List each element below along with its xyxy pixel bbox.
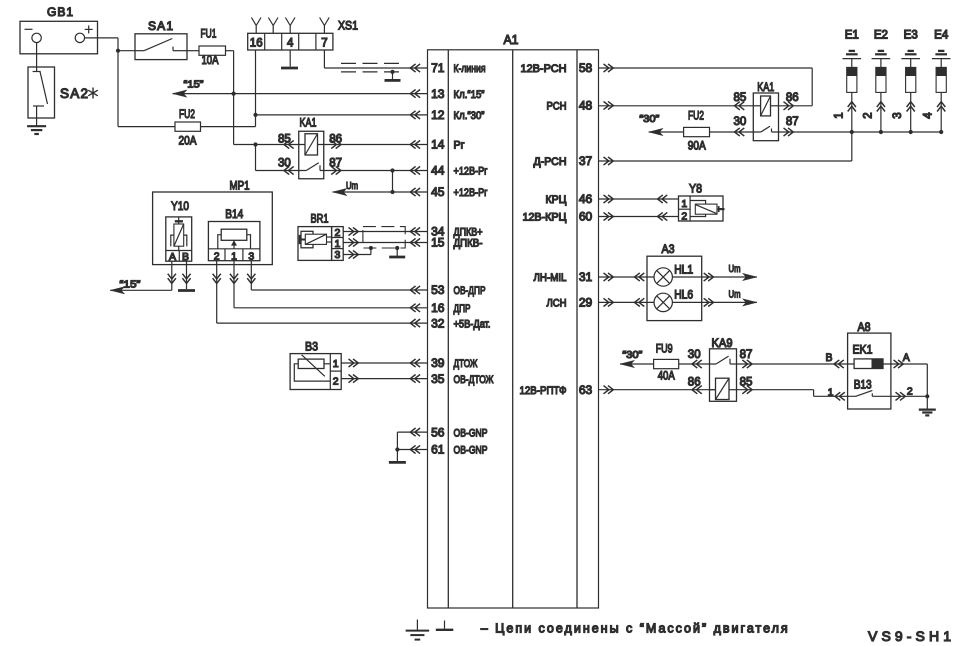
svg-text:71: 71 (431, 61, 445, 75)
switch B13 (828, 377, 913, 398)
A1 pin 56 ОВ-GNP (410, 425, 487, 439)
wire glow bus to A1 pin 37 (599, 132, 852, 161)
shield DPKV pair (363, 227, 405, 248)
junction glow bus E4 (939, 130, 943, 134)
svg-text:Y10: Y10 (171, 199, 189, 213)
wire A1 pin 48 to KA1 right 85 (599, 105, 754, 107)
svg-text:Y8: Y8 (689, 181, 702, 195)
block A3 (647, 242, 702, 321)
sensor BR1 (298, 211, 343, 261)
svg-text:35: 35 (431, 372, 445, 386)
wire shield to ground (396, 248, 398, 256)
svg-text:FU2: FU2 (179, 107, 195, 121)
svg-text:SA2: SA2 (60, 86, 88, 101)
ground MP1-B massa (178, 289, 195, 292)
wire 85 node down to 30 (255, 145, 257, 171)
svg-text:10A: 10A (202, 53, 219, 67)
junction pin44 to Um tap (390, 168, 394, 172)
junction Kl30 node (253, 113, 257, 117)
svg-text:Um: Um (729, 289, 741, 300)
wire B3-2 to A1 pin 35 (341, 378, 427, 380)
svg-text:“15”: “15” (184, 79, 205, 91)
ground node A earth (919, 409, 936, 411)
svg-text:31: 31 (579, 270, 593, 284)
svg-text:2: 2 (862, 112, 874, 118)
svg-text:2: 2 (681, 210, 687, 222)
svg-text:BR1: BR1 (311, 211, 329, 225)
lamp HL1 (654, 264, 693, 286)
svg-text:ЛСН: ЛСН (547, 298, 567, 310)
wire KA1 right 87 to glow plug bus (772, 131, 942, 133)
svg-text:А: А (903, 352, 911, 364)
connector pin B (182, 274, 190, 284)
switch SA2 (28, 67, 98, 118)
node "30" feed via FU2 90A (639, 113, 760, 136)
A1 pin 12 Кл.&#8220;30&#8221; (410, 108, 484, 122)
wire MP1-1 to A1 pin 16 (234, 261, 428, 308)
svg-text:B14: B14 (225, 207, 243, 221)
wire Kl30 to A1 pin 12 (256, 114, 428, 116)
svg-text:30: 30 (688, 349, 701, 361)
wire SA2 to ground (36, 106, 38, 126)
connector pin 2 (213, 274, 221, 284)
svg-text:Д-РСН: Д-РСН (534, 156, 567, 168)
svg-text:ОВ-ДПР: ОВ-ДПР (454, 285, 486, 297)
A1 pin 48 РСН (547, 99, 614, 113)
wire BR1-1 to A1 pin 15 (343, 242, 427, 244)
connector pins KA9 (692, 360, 752, 394)
svg-text:1: 1 (681, 198, 687, 210)
ECU A1 (428, 32, 599, 608)
A1 pin 60 12В-КРЦ (523, 210, 614, 224)
wire GB1 minus to SA2 (36, 43, 38, 72)
valve Y8 (679, 181, 725, 222)
wire MP1-3 to A1 pin 53 (251, 261, 427, 290)
svg-text:90A: 90A (688, 139, 706, 153)
svg-text:ОВ-ДТОЖ: ОВ-ДТОЖ (454, 374, 494, 386)
svg-text:Рг: Рг (454, 140, 465, 152)
node Um tap on pin 45 (333, 181, 428, 196)
wire BR1-3 to shield (343, 248, 371, 255)
glow plug E1 (833, 30, 861, 132)
svg-text:12В-КРЦ: 12В-КРЦ (523, 212, 567, 224)
switch SA1 (135, 19, 187, 60)
block MP1 (153, 178, 273, 264)
wire BR1-2 to A1 pin 34 (343, 231, 427, 233)
svg-text:7: 7 (321, 37, 327, 49)
svg-text:ДТОЖ: ДТОЖ (454, 358, 478, 370)
svg-text:KA9: KA9 (712, 336, 733, 350)
svg-text:14: 14 (431, 138, 445, 152)
wire SA1 to FU1 (187, 50, 199, 52)
svg-text:56: 56 (431, 425, 445, 439)
svg-text:87: 87 (740, 349, 753, 361)
svg-text:1: 1 (828, 386, 834, 398)
svg-text:A: A (169, 251, 176, 263)
svg-text:1: 1 (833, 112, 845, 118)
wire MP1-A to 15 arrow (110, 261, 172, 294)
connector pin 3 (247, 274, 255, 284)
A1 pin 44 +12В-Рг (410, 164, 487, 178)
svg-text:“30”: “30” (639, 113, 660, 125)
wire B3-1 to A1 pin 39 (341, 362, 427, 364)
A1 pin 31 ЛН-MIL (534, 270, 614, 284)
junction shield ground tap (395, 246, 399, 250)
svg-text:ДПКВ-: ДПКВ- (454, 238, 483, 250)
svg-text:“30”: “30” (622, 349, 643, 361)
connector B13 pin 2 (896, 392, 906, 400)
svg-text:+12В-Рг: +12В-Рг (454, 166, 488, 178)
block A8 (848, 320, 891, 409)
wire shield to ground (392, 72, 394, 79)
wire B13 to node A ground (891, 395, 927, 397)
svg-text:30: 30 (734, 116, 747, 128)
connector EK1 left (834, 360, 844, 368)
wire A1 pin 60 to Y8 pin 2 (599, 216, 679, 218)
battery GB1 (20, 5, 98, 54)
svg-text:B13: B13 (854, 377, 872, 391)
wire A1 pin 63 to KA9 coil 86 (599, 389, 716, 391)
connector pins KA1 left (284, 140, 341, 174)
A1 pin 14 Рг (410, 138, 464, 152)
node "30" feed via FU9 40A (620, 349, 716, 368)
svg-text:13: 13 (431, 87, 445, 101)
svg-text:FU9: FU9 (656, 341, 673, 355)
junction pins 56-61 (395, 447, 399, 451)
A1 pin 13 Кл.&#8220;15&#8221; (410, 87, 484, 101)
glow plug E4 (923, 30, 951, 132)
svg-text:12: 12 (431, 108, 445, 122)
connector EK1 right (894, 360, 904, 368)
relay KA9 (688, 336, 753, 401)
junction FU1 and 15 line (232, 92, 236, 96)
junction glow bus E3 (909, 130, 913, 134)
ground BR1 shield massa (389, 256, 405, 259)
svg-text:A3: A3 (662, 242, 675, 256)
svg-text:KA1: KA1 (300, 116, 317, 130)
svg-text:61: 61 (431, 443, 445, 457)
legend earth symbol (406, 620, 430, 640)
svg-text:HL1: HL1 (674, 264, 693, 276)
svg-text:E2: E2 (874, 30, 888, 42)
wire node A to ground (926, 396, 928, 409)
svg-text:Um: Um (346, 181, 358, 192)
connector pin A (168, 274, 176, 284)
wire node to SA1 (118, 50, 135, 52)
svg-text:E4: E4 (934, 30, 949, 42)
svg-text:85: 85 (740, 376, 753, 388)
wire KA9 87 to EK1 (737, 363, 855, 365)
connector pins A3 (635, 273, 714, 307)
svg-text:12В-РСН: 12В-РСН (521, 63, 567, 75)
wire XS1 pin4 to ground (289, 50, 291, 67)
fuse FU2 90A (684, 109, 710, 153)
svg-text:60: 60 (579, 210, 593, 224)
wire MP1-B to ground (186, 261, 188, 289)
legend massa symbol (436, 621, 454, 630)
junction 85 feed (253, 142, 257, 146)
ground pins 56-61 massa (389, 461, 406, 464)
wire to KA1 coil 85 (234, 144, 428, 146)
svg-text:45: 45 (431, 185, 445, 199)
A1 pin 37 Д-РСН (534, 154, 614, 168)
svg-text:EK1: EK1 (853, 343, 873, 357)
wire A1 pin 46 to Y8 pin 1 (599, 198, 679, 200)
svg-text:58: 58 (579, 61, 593, 75)
svg-text:РСН: РСН (547, 101, 567, 113)
svg-text:ОВ-GNP: ОВ-GNP (454, 427, 488, 439)
A1 pin 39 ДТОЖ (410, 356, 477, 370)
svg-text:KA1: KA1 (757, 80, 774, 94)
wire KA9 85 to B13 (737, 390, 857, 397)
potentiometer B14 (208, 207, 260, 262)
junction node A ground (925, 394, 929, 398)
fuse FU1 10A (199, 27, 226, 68)
svg-text:3: 3 (892, 112, 904, 118)
svg-text:87: 87 (786, 116, 799, 128)
wire A1 pin 61 to ground (397, 449, 427, 451)
wire EK1 to node A (883, 364, 927, 396)
svg-text:3: 3 (248, 250, 254, 262)
svg-text:Um: Um (729, 264, 741, 275)
svg-text:46: 46 (579, 192, 593, 206)
wire 30 contact to A1 pin 44 (256, 170, 428, 172)
svg-text:37: 37 (579, 154, 593, 168)
svg-text:32: 32 (431, 316, 445, 330)
svg-text:1: 1 (231, 250, 237, 262)
fuse FU9 40A (654, 341, 679, 382)
A1 pin 45 +12В-Рг (410, 185, 487, 199)
svg-text:“15”: “15” (120, 278, 142, 290)
svg-text:HL6: HL6 (674, 290, 693, 302)
svg-text:87: 87 (329, 157, 342, 169)
connector XS1 (248, 18, 359, 51)
junction K-line shield ground (390, 70, 394, 74)
node "15" line to A1 pin 13 (173, 79, 428, 98)
A1 pin 35 ОВ-ДТОЖ (410, 372, 493, 386)
A1 pin 34 ДПКВ+ (410, 225, 482, 239)
junction on pin45 wire (390, 190, 394, 194)
heater EK1 (853, 343, 884, 369)
A1 pin 58 12В-РСН (521, 61, 614, 75)
connector B3 pin 1 (349, 359, 359, 367)
node battery positive (116, 49, 120, 53)
junction glow bus E2 (879, 130, 883, 134)
svg-text:+5В-Дат.: +5В-Дат. (454, 318, 491, 330)
A1 pin 46 КРЦ (546, 192, 614, 206)
sensor B3 (290, 339, 341, 389)
glow plug E2 (862, 30, 890, 132)
svg-text:B: B (182, 251, 189, 263)
svg-text:40A: 40A (658, 369, 675, 383)
svg-text:Кл.“15”: Кл.“15” (454, 89, 485, 101)
svg-text:E3: E3 (904, 30, 918, 42)
svg-text:FU2: FU2 (688, 109, 704, 123)
wire A1 pin 56 to ground (397, 432, 427, 462)
svg-text:2: 2 (214, 250, 220, 262)
wire FU1 to 15 node (226, 51, 234, 145)
wire FU2 to Kl30 node (201, 50, 256, 127)
svg-text:К-линия: К-линия (454, 63, 486, 75)
A1 pin 63 12В-РПТФ (520, 383, 614, 397)
svg-text:3: 3 (334, 249, 340, 261)
svg-text:SA1: SA1 (148, 19, 173, 33)
svg-text:12В-РПТФ: 12В-РПТФ (520, 385, 567, 397)
svg-text:44: 44 (431, 164, 445, 178)
connector B3 pin 2 (349, 375, 359, 383)
svg-text:E1: E1 (845, 30, 859, 42)
wire 44 to 45 link (392, 171, 394, 193)
A1 pin 32 +5В-Дат. (410, 316, 490, 330)
svg-text:XS1: XS1 (338, 19, 358, 33)
connector BR1 pin 3 (349, 250, 359, 258)
A1 pin 53 ОВ-ДПР (410, 283, 485, 297)
svg-text:КРЦ: КРЦ (546, 194, 567, 206)
connector BR1 pin 2 (349, 227, 359, 235)
svg-text:– Цепи соединены с “Массой: – Цепи соединены с “Массой” двигателя (481, 622, 788, 636)
svg-text:B3: B3 (305, 339, 318, 353)
svg-text:A1: A1 (504, 32, 519, 47)
connector pins KA1 right (735, 102, 794, 136)
svg-text:FU1: FU1 (201, 27, 217, 41)
svg-text:63: 63 (579, 383, 593, 397)
svg-text:ДПР: ДПР (454, 303, 471, 315)
svg-text:29: 29 (579, 296, 593, 310)
svg-text:39: 39 (431, 356, 445, 370)
wire A1 pin 58 to KA1 right 86 (599, 68, 813, 106)
glow plug E3 (892, 30, 920, 132)
A1 pin 16 ДПР (410, 301, 470, 315)
A1 pin 71 К-линия (410, 61, 485, 75)
svg-text:20A: 20A (179, 134, 197, 148)
wire MP1-2 to A1 pin 32 (217, 261, 428, 323)
svg-text:16: 16 (431, 301, 445, 315)
connector BR1 pin 1 (349, 238, 359, 246)
svg-text:Кл.“30”: Кл.“30” (454, 110, 485, 122)
wire battery plus to node (85, 38, 118, 51)
svg-text:4: 4 (287, 37, 294, 49)
wire node to FU2 (118, 51, 175, 127)
A1 pin 29 ЛСН (547, 296, 614, 310)
connector B13 pin 1 (835, 392, 845, 400)
fuse FU2 20A (175, 107, 201, 148)
svg-text:16: 16 (250, 37, 263, 49)
A1 pin 61 ОВ-GNP (410, 443, 487, 457)
relay KA1 (278, 116, 342, 179)
svg-text:В: В (826, 352, 833, 364)
svg-text:MP1: MP1 (230, 178, 250, 192)
svg-text:+12В-Рг: +12В-Рг (454, 187, 488, 199)
ground K-line shield (385, 79, 401, 82)
svg-text:VS9-SH1: VS9-SH1 (868, 628, 951, 644)
connector pin 1 (230, 274, 238, 284)
wire A1 pin 29 to lamp HL6 and Um (599, 289, 758, 306)
K-line shield (341, 63, 402, 72)
wire A1 pin 31 to lamp HL1 and Um (599, 264, 758, 281)
svg-text:1: 1 (333, 358, 339, 370)
wire XS1 pin7 K-line to A1 pin 71 (324, 50, 427, 68)
svg-text:15: 15 (431, 236, 445, 250)
ground under XS1 pin4 (281, 67, 298, 70)
relay KA1 right (734, 80, 799, 141)
svg-text:ОВ-GNP: ОВ-GNP (454, 445, 488, 457)
svg-text:GB1: GB1 (47, 5, 73, 19)
svg-text:2: 2 (333, 375, 339, 387)
valve Y10 (166, 199, 192, 263)
svg-text:ЛН-MIL: ЛН-MIL (534, 272, 567, 284)
svg-text:48: 48 (579, 99, 593, 113)
svg-text:53: 53 (431, 283, 445, 297)
svg-text:86: 86 (688, 376, 701, 388)
lamp HL6 (654, 290, 693, 312)
svg-text:4: 4 (923, 112, 935, 119)
connector pins Y8 (658, 195, 668, 221)
junction shield tap (369, 246, 373, 250)
ground under SA2 (27, 126, 46, 134)
junction glow bus E1 (850, 130, 854, 134)
A1 pin 15 ДПКВ- (410, 236, 482, 250)
svg-text:A8: A8 (858, 320, 871, 334)
